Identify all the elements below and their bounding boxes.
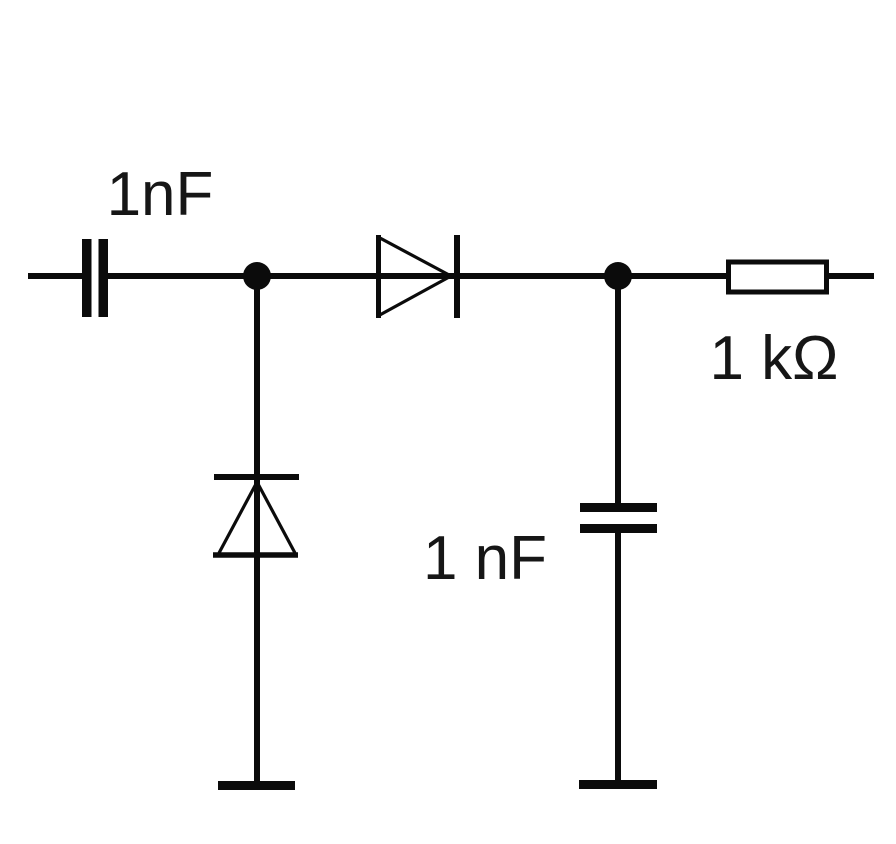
diode D2 anode base bar <box>213 552 298 558</box>
diode D1 cathode bar <box>454 235 460 318</box>
capacitor C2 top plate <box>580 503 657 512</box>
capacitor C1 plate right <box>99 239 109 317</box>
resistor R1 body <box>729 262 827 292</box>
ground left <box>218 781 295 790</box>
wire node B down <box>615 276 621 507</box>
svg-text:1nF: 1nF <box>107 160 214 229</box>
diode D1 anode bar <box>376 235 381 318</box>
ground right <box>579 780 657 789</box>
wire node A down to ground <box>254 276 260 785</box>
wire main horizontal <box>108 273 874 279</box>
wire C2 to ground <box>615 528 621 785</box>
svg-text:1 kΩ: 1 kΩ <box>709 324 838 393</box>
diode D1 triangle upper edge <box>378 237 451 276</box>
node B junction <box>604 262 632 290</box>
diode D1 triangle lower edge <box>378 276 451 316</box>
diode D2 triangle left edge <box>219 482 257 553</box>
svg-text:1 nF: 1 nF <box>423 524 547 593</box>
diode D2 triangle right edge <box>257 482 295 553</box>
diode D2 cathode bar <box>214 474 299 480</box>
capacitor C1 plate left <box>82 239 92 317</box>
capacitor C2 bottom plate <box>580 524 657 533</box>
node A junction <box>243 262 271 290</box>
wire input segment <box>28 273 83 279</box>
